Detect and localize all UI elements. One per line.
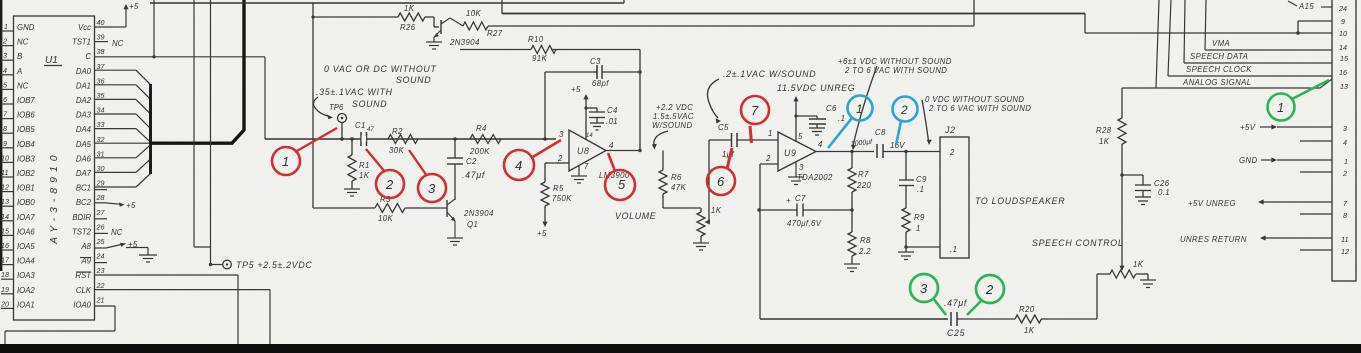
svg-text:0.1: 0.1 xyxy=(1158,188,1170,197)
R27 rail y=26 xyxy=(488,25,974,27)
svg-text:NC: NC xyxy=(17,81,29,90)
svg-text:40: 40 xyxy=(97,18,105,27)
svg-text:8: 8 xyxy=(3,124,7,133)
svg-text:39: 39 xyxy=(97,33,105,42)
svg-text:220: 220 xyxy=(856,181,871,190)
svg-text:R2: R2 xyxy=(392,127,403,136)
wire wiper to C5 xyxy=(709,139,731,141)
ground under C9/R9 chain xyxy=(898,252,914,260)
svg-text:47: 47 xyxy=(367,127,374,133)
connector J2 xyxy=(940,137,969,258)
svg-text:2: 2 xyxy=(385,177,394,192)
svg-text:C26: C26 xyxy=(1154,179,1170,188)
svg-text:38: 38 xyxy=(97,47,105,56)
TP5 vertical wires xyxy=(194,0,222,265)
red annotation circle 7 xyxy=(741,96,769,143)
svg-text:IOA6: IOA6 xyxy=(17,227,35,236)
U1 right pin stubs xyxy=(95,27,113,263)
svg-text:1: 1 xyxy=(1344,157,1348,166)
pin9 jog wire xyxy=(1298,21,1332,33)
svg-text:21: 21 xyxy=(96,295,105,304)
ground under R1 xyxy=(344,189,360,196)
pin10 long wire xyxy=(1085,14,1332,34)
+V arrow into U9 pin 5 xyxy=(793,96,798,141)
svg-text:IOA1: IOA1 xyxy=(17,300,35,309)
svg-text:2: 2 xyxy=(949,148,955,157)
svg-text:12: 12 xyxy=(1,183,9,192)
svg-text:DA6: DA6 xyxy=(76,154,92,163)
U1 right internal labels xyxy=(72,23,92,309)
red annotation circle 2 xyxy=(366,149,404,198)
svg-text:C9: C9 xyxy=(916,175,927,184)
jog at x=973 xyxy=(973,0,975,26)
U9 pin2 feedback wire down to bottom rail xyxy=(759,164,761,319)
bottom rail wire to C25 xyxy=(760,318,948,320)
ground near pin 24 xyxy=(126,248,157,263)
svg-text:1.5±.5VAC: 1.5±.5VAC xyxy=(653,112,694,121)
svg-text:.47μf: .47μf xyxy=(462,170,486,180)
svg-text:4: 4 xyxy=(3,66,7,75)
svg-text:DA7: DA7 xyxy=(76,169,92,178)
test point TP6 xyxy=(338,114,347,140)
svg-text:11: 11 xyxy=(1,168,8,177)
svg-text:NC: NC xyxy=(112,39,124,48)
svg-text:16: 16 xyxy=(1339,68,1347,77)
node dot at U9 output xyxy=(850,150,853,153)
svg-text:24: 24 xyxy=(96,252,105,261)
svg-text:4: 4 xyxy=(1343,138,1347,147)
svg-text:2.2: 2.2 xyxy=(858,247,871,256)
svg-text:.2±.1VAC W/SOUND: .2±.1VAC W/SOUND xyxy=(723,69,816,79)
svg-text:+5V UNREG: +5V UNREG xyxy=(1188,199,1236,208)
svg-text:470μf,6V: 470μf,6V xyxy=(787,219,822,228)
speech control pot 1K xyxy=(1110,270,1148,280)
svg-text:0 VAC OR DC WITHOUT: 0 VAC OR DC WITHOUT xyxy=(324,64,437,74)
U1 left pin stubs 1-20 xyxy=(1,31,14,308)
svg-text:2 TO 6 VAC WITH SOUND: 2 TO 6 VAC WITH SOUND xyxy=(928,104,1031,113)
svg-text:IOB6: IOB6 xyxy=(17,111,35,120)
svg-text:NC: NC xyxy=(17,38,29,47)
svg-text:2: 2 xyxy=(1342,169,1347,178)
U1 left internal labels xyxy=(16,23,35,309)
svg-text:IOA2: IOA2 xyxy=(17,286,35,295)
svg-text:A8: A8 xyxy=(80,242,91,251)
transistor Q (2N3904, top) xyxy=(434,18,450,38)
svg-text:R26: R26 xyxy=(400,23,416,32)
svg-text:14: 14 xyxy=(1,212,9,221)
svg-text:16V: 16V xyxy=(890,141,906,150)
resistor R8 2.2 xyxy=(848,210,856,264)
svg-text:14: 14 xyxy=(586,133,593,139)
blue annotation circle 1 xyxy=(828,96,873,149)
svg-text:TP5 +2.5±.2VDC: TP5 +2.5±.2VDC xyxy=(236,260,312,270)
ground under volume pot xyxy=(693,243,709,250)
svg-text:15: 15 xyxy=(1340,54,1349,63)
svg-text:IOB4: IOB4 xyxy=(17,140,35,149)
left black edge strip xyxy=(0,0,2,271)
svg-text:DA5: DA5 xyxy=(76,140,92,149)
svg-text:GND: GND xyxy=(17,23,35,32)
resistor R26 1K xyxy=(313,13,439,27)
ground right of speech pot xyxy=(1140,280,1156,288)
svg-text:6: 6 xyxy=(3,95,7,104)
svg-text:68pf: 68pf xyxy=(592,79,609,88)
ground under U8 xyxy=(571,166,587,183)
svg-text:27: 27 xyxy=(96,208,106,217)
svg-text:SOUND: SOUND xyxy=(396,75,431,85)
resistor R20 1K xyxy=(1015,274,1110,323)
svg-text:2N3904: 2N3904 xyxy=(463,209,494,218)
resistor R10 91K xyxy=(460,46,640,54)
red annotation circle 3 xyxy=(409,150,446,202)
svg-text:15: 15 xyxy=(1,226,10,235)
IC U1 body xyxy=(14,16,95,320)
svg-text:TST1: TST1 xyxy=(72,38,91,47)
svg-text:IOA5: IOA5 xyxy=(17,242,35,251)
svg-text:U8: U8 xyxy=(577,146,590,156)
capacitor C25 .47uf xyxy=(951,312,957,326)
volume pot 1K xyxy=(697,208,705,243)
svg-text:C4: C4 xyxy=(607,106,618,115)
svg-text:U1: U1 xyxy=(45,55,58,66)
bottom black bar xyxy=(0,344,1361,353)
svg-text:36: 36 xyxy=(97,76,105,85)
svg-text:CLK: CLK xyxy=(76,286,92,295)
svg-text:31: 31 xyxy=(97,149,105,158)
svg-text:1K: 1K xyxy=(359,171,370,180)
svg-text:DA1: DA1 xyxy=(76,81,91,90)
svg-text:2: 2 xyxy=(900,103,908,117)
svg-text:2: 2 xyxy=(2,37,7,46)
node: dot on pin38 wire xyxy=(152,55,155,58)
svg-text:20: 20 xyxy=(0,299,9,308)
svg-text:VMA: VMA xyxy=(1212,39,1230,48)
svg-text:DA4: DA4 xyxy=(76,125,92,134)
resistor R6 47K xyxy=(659,151,701,209)
svg-text:2 TO 6 VAC WITH SOUND: 2 TO 6 VAC WITH SOUND xyxy=(844,66,947,75)
svg-text:TST2: TST2 xyxy=(72,227,92,236)
green annotation circle 1 xyxy=(1268,80,1330,121)
svg-text:4: 4 xyxy=(818,140,823,149)
svg-text:47K: 47K xyxy=(671,183,686,192)
svg-text:SPEECH CLOCK: SPEECH CLOCK xyxy=(1186,65,1252,74)
svg-text:0 VDC WITHOUT SOUND: 0 VDC WITHOUT SOUND xyxy=(925,95,1024,104)
svg-text:1K: 1K xyxy=(711,206,722,215)
svg-text:+: + xyxy=(786,196,791,205)
svg-text:32: 32 xyxy=(97,135,105,144)
svg-text:SPEECH CONTROL: SPEECH CONTROL xyxy=(1032,238,1123,248)
capacitor C4 .01 xyxy=(586,108,605,130)
svg-text:DA0: DA0 xyxy=(76,67,92,76)
+5 arrow above U8 xyxy=(583,94,588,139)
svg-text:33: 33 xyxy=(97,120,105,129)
ground under R8 xyxy=(844,264,860,272)
blue annotation circle 2 xyxy=(893,97,918,146)
svg-text:2: 2 xyxy=(985,282,994,297)
svg-text:24: 24 xyxy=(1338,4,1347,13)
capacitor C5 xyxy=(732,133,738,147)
capacitor C26 0.1 xyxy=(1122,175,1151,205)
svg-text:R6: R6 xyxy=(671,173,682,182)
red annotation circle 1 xyxy=(272,128,337,175)
svg-text:.1: .1 xyxy=(917,185,924,194)
right connector box xyxy=(1332,0,1356,281)
svg-text:IOB7: IOB7 xyxy=(17,96,35,105)
pin 22 CLK wire xyxy=(95,290,271,344)
pin40 +5 arrow xyxy=(112,4,129,27)
svg-text:5: 5 xyxy=(798,132,803,141)
svg-text:2: 2 xyxy=(765,154,771,163)
U1 left pin numbers xyxy=(0,22,10,308)
svg-text:23: 23 xyxy=(96,266,105,275)
svg-text:4: 4 xyxy=(609,141,614,150)
svg-text:34: 34 xyxy=(97,106,105,115)
svg-text:30: 30 xyxy=(97,164,105,173)
svg-text:10K: 10K xyxy=(378,214,393,223)
TP5 test point xyxy=(223,260,232,269)
svg-text:IOB5: IOB5 xyxy=(17,125,35,134)
svg-text:C7: C7 xyxy=(795,194,806,203)
svg-text:GND: GND xyxy=(1239,156,1258,165)
svg-text:C2: C2 xyxy=(466,157,477,166)
svg-text:RST: RST xyxy=(75,271,92,280)
svg-text:SOUND: SOUND xyxy=(352,99,387,109)
svg-text:.01: .01 xyxy=(606,117,618,126)
R26 drop wire xyxy=(312,3,314,208)
volume wiper arrow and wire xyxy=(705,140,710,225)
svg-text:+5: +5 xyxy=(571,85,581,94)
svg-text:3: 3 xyxy=(920,281,928,296)
green annotation circle 2 xyxy=(967,275,1004,315)
svg-text:10K: 10K xyxy=(466,9,481,18)
red annotation circle 4 xyxy=(504,140,561,180)
svg-text:BC2: BC2 xyxy=(76,198,92,207)
svg-text:1K: 1K xyxy=(404,4,415,13)
svg-text:TP6: TP6 xyxy=(329,103,344,112)
svg-text:R1: R1 xyxy=(359,161,370,170)
op-amp U8 LM3900 xyxy=(556,130,640,171)
svg-text:C6: C6 xyxy=(826,104,837,113)
svg-text:3: 3 xyxy=(1343,124,1347,133)
capacitor C2 .47uf xyxy=(447,139,463,200)
pin 23 RST wire xyxy=(95,275,239,344)
svg-text:7: 7 xyxy=(751,103,759,118)
pin 21 IOA0 loop wire xyxy=(5,306,115,344)
svg-text:R4: R4 xyxy=(476,124,487,133)
svg-text:1K: 1K xyxy=(1024,326,1035,335)
svg-text:Vcc: Vcc xyxy=(78,23,91,32)
svg-text:1: 1 xyxy=(768,129,773,138)
resistor R27 10K xyxy=(450,18,488,30)
svg-text:1K: 1K xyxy=(1133,260,1144,269)
wire C5 to U9 pin1 xyxy=(737,139,778,141)
IC U1 designator xyxy=(44,55,62,245)
resistor R28 1K xyxy=(1118,88,1126,175)
pin 38 wire (analog C) to main signal wire xyxy=(95,57,266,139)
resistor R5 750K xyxy=(541,163,556,222)
svg-text:R10: R10 xyxy=(528,35,544,44)
svg-text:29: 29 xyxy=(96,179,105,188)
svg-text:C3: C3 xyxy=(590,57,601,66)
svg-text:14: 14 xyxy=(1339,43,1347,52)
capacitor C3 68pf xyxy=(545,50,640,151)
svg-text:R9: R9 xyxy=(914,213,925,222)
svg-text:R27: R27 xyxy=(487,29,503,38)
svg-text:IOA4: IOA4 xyxy=(17,257,35,266)
op-amp U9 TDA2002 xyxy=(760,132,874,171)
svg-text:U9: U9 xyxy=(784,148,797,158)
svg-text:11.5VDC UNREG: 11.5VDC UNREG xyxy=(777,83,855,93)
DA bus: pin stubs and diagonals merging to rail xyxy=(95,70,151,187)
svg-text:26: 26 xyxy=(96,222,105,231)
capacitor C1 xyxy=(361,132,367,146)
ground under U9 pin 3 xyxy=(788,162,804,185)
svg-text:DA3: DA3 xyxy=(76,111,92,120)
svg-text:+2.2 VDC: +2.2 VDC xyxy=(656,103,693,112)
wire C25 to R20 xyxy=(957,318,1015,320)
svg-text:30K: 30K xyxy=(389,146,404,155)
capacitor C6 .1 xyxy=(796,116,826,135)
svg-text:8: 8 xyxy=(1343,211,1347,220)
svg-text:+5: +5 xyxy=(537,229,547,238)
thick bus wire xyxy=(151,0,245,143)
svg-text:5: 5 xyxy=(618,177,626,192)
svg-text:37: 37 xyxy=(97,62,106,71)
svg-text:R20: R20 xyxy=(1019,305,1035,314)
capacitor C9 .1 xyxy=(899,152,914,209)
svg-text:1: 1 xyxy=(916,224,921,233)
resistor R3 10K xyxy=(313,204,447,213)
svg-text:IOA7: IOA7 xyxy=(17,213,35,222)
U1 right pin numbers xyxy=(96,18,106,304)
svg-text:A15: A15 xyxy=(1298,2,1314,11)
svg-text:18: 18 xyxy=(1,270,9,279)
svg-text:25: 25 xyxy=(96,237,106,246)
svg-text:IOA3: IOA3 xyxy=(17,271,35,280)
top rail y=3 xyxy=(150,2,624,4)
ground under Q1 xyxy=(447,238,463,245)
svg-text:C1: C1 xyxy=(355,121,366,130)
svg-text:A: A xyxy=(16,67,22,76)
svg-text:11: 11 xyxy=(1341,235,1348,244)
svg-text:1: 1 xyxy=(856,102,863,116)
svg-text:200K: 200K xyxy=(469,147,490,156)
svg-text:.1: .1 xyxy=(838,114,845,123)
svg-text:2N3904: 2N3904 xyxy=(449,38,480,47)
svg-text:C5: C5 xyxy=(718,123,729,132)
bus vertical rail xyxy=(149,84,152,174)
svg-text:IOB2: IOB2 xyxy=(17,169,35,178)
svg-text:BDIR: BDIR xyxy=(72,213,91,222)
svg-text:750K: 750K xyxy=(552,194,572,203)
svg-text:UNRES RETURN: UNRES RETURN xyxy=(1180,235,1247,244)
svg-text:IOB3: IOB3 xyxy=(17,154,35,163)
svg-text:17: 17 xyxy=(1,256,10,265)
svg-text:16: 16 xyxy=(1,241,9,250)
svg-text:13: 13 xyxy=(1340,82,1348,91)
svg-text:10: 10 xyxy=(1,153,9,162)
svg-text:9: 9 xyxy=(3,139,7,148)
svg-text:R8: R8 xyxy=(860,236,871,245)
capacitor C7 470uf xyxy=(759,204,852,217)
svg-text:TO LOUDSPEAKER: TO LOUDSPEAKER xyxy=(975,196,1065,206)
svg-text:.47μf: .47μf xyxy=(944,298,968,308)
svg-text:10: 10 xyxy=(1339,29,1347,38)
speech pot wiper arrow from R28 chain xyxy=(1119,175,1124,271)
svg-text:+5: +5 xyxy=(126,201,136,210)
svg-text:1: 1 xyxy=(282,154,289,169)
svg-text:Q1: Q1 xyxy=(467,220,478,229)
curly pointer to TP6 xyxy=(313,97,328,116)
svg-text:IOB1: IOB1 xyxy=(17,184,35,193)
svg-text:+5: +5 xyxy=(129,2,139,11)
A15 net label xyxy=(1288,1,1297,6)
svg-text:19: 19 xyxy=(1,285,9,294)
svg-text:VOLUME: VOLUME xyxy=(615,211,656,221)
svg-text:SPEECH DATA: SPEECH DATA xyxy=(1190,52,1248,61)
svg-text:35: 35 xyxy=(97,91,106,100)
svg-text:3: 3 xyxy=(559,130,564,139)
resistor R4 200K xyxy=(470,135,501,144)
svg-text:3: 3 xyxy=(3,51,7,60)
main signal wire xyxy=(265,138,556,140)
J2 pin1 wire xyxy=(906,246,940,248)
svg-text:IOA0: IOA0 xyxy=(73,300,91,309)
svg-text:91K: 91K xyxy=(532,54,547,63)
transistor Q1 2N3904 xyxy=(447,199,456,238)
resistor R7 220 xyxy=(848,152,856,211)
svg-text:9: 9 xyxy=(1341,17,1345,26)
svg-text:AY-3-8910: AY-3-8910 xyxy=(48,150,60,245)
svg-text:13: 13 xyxy=(1,197,9,206)
svg-text:2: 2 xyxy=(557,154,563,163)
svg-text:R5: R5 xyxy=(553,184,564,193)
svg-text:28: 28 xyxy=(96,193,105,202)
pin 25 +5 arrow xyxy=(106,243,126,248)
svg-text:C25: C25 xyxy=(947,328,965,338)
resistor R9 1 xyxy=(902,208,910,252)
svg-text:C8: C8 xyxy=(875,128,886,137)
vertical wire x=154 from top xyxy=(153,0,155,57)
svg-text:B: B xyxy=(17,52,22,61)
ground under top transistor xyxy=(426,37,442,49)
svg-text:J2: J2 xyxy=(944,125,956,135)
svg-text:R28: R28 xyxy=(1096,126,1112,135)
svg-text:6: 6 xyxy=(717,174,725,189)
svg-text:3: 3 xyxy=(428,181,436,196)
svg-text:7: 7 xyxy=(584,162,589,171)
svg-text:4: 4 xyxy=(515,158,522,173)
svg-text:1: 1 xyxy=(1277,100,1284,115)
svg-text:+5V: +5V xyxy=(1240,123,1256,132)
green annotation circle 3 xyxy=(910,274,946,315)
overbars for A9 and RST xyxy=(76,258,91,273)
svg-text:1: 1 xyxy=(4,22,8,31)
svg-text:IOB0: IOB0 xyxy=(17,198,35,207)
svg-text:W/SOUND: W/SOUND xyxy=(652,121,692,130)
svg-text:.35±.1VAC WITH: .35±.1VAC WITH xyxy=(316,87,393,97)
red annotation circle 6 xyxy=(707,148,735,195)
capacitor C8 1000uf 16V xyxy=(877,144,883,158)
svg-text:R7: R7 xyxy=(858,170,869,179)
red annotation circle 5 xyxy=(605,153,635,200)
svg-text:C: C xyxy=(85,52,91,61)
svg-text:1K: 1K xyxy=(1099,137,1110,146)
svg-text:BC1: BC1 xyxy=(76,184,91,193)
svg-text:+6±1 VDC WITHOUT SOUND: +6±1 VDC WITHOUT SOUND xyxy=(838,57,952,66)
svg-text:DA2: DA2 xyxy=(76,96,92,105)
svg-text:12: 12 xyxy=(1341,247,1349,256)
